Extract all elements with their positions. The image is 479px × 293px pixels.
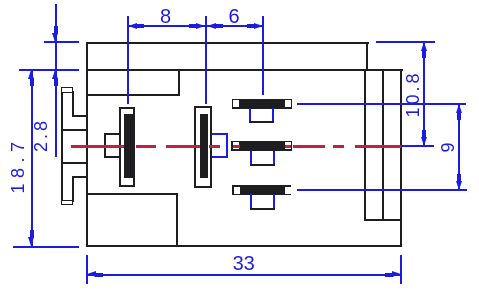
foot box right vertical [176,193,178,248]
dim 18.7 line [31,70,33,246]
body left edge [86,42,88,248]
right extension line at contact 1 center [297,103,467,105]
contact bar 2 (middle) [231,141,293,152]
dim 2.8 line below [55,70,57,157]
centerline dash 9 [355,145,401,148]
contact bar 3 right notch [285,187,291,194]
bracket middle divider lower [61,162,87,164]
contact 3 holder left side (blue) [250,194,252,209]
contact 3 holder bottom [250,208,275,210]
bracket top inner vertical [72,91,74,117]
dim 33 arrow left [86,274,88,276]
centerline dash 5 [233,145,241,148]
right extension line at body top [376,41,435,43]
bracket bottom lip [61,200,73,206]
top dim arrow left of 6 span [206,25,208,27]
dim 10.8 line [423,42,425,146]
body bottom edge [86,245,402,247]
contact 1 holder left side (blue) [249,108,251,123]
centerline dash 7 [293,145,324,148]
body top-right step vertical [366,42,368,71]
dimension text 2.8 [32,118,50,152]
centerline dash 4 [209,145,220,148]
bracket bottom tab horizontal [72,176,88,178]
body upper-left step horizontal [86,94,180,96]
contact bar 1 right notch [285,100,291,107]
contact bar 2 right notch [285,142,291,149]
pin 2 right protrusion top (blue) [212,133,227,135]
pin 1 fill [124,114,133,178]
extension line contact column [262,16,264,95]
centerline dash 1 [71,145,125,148]
foot box top horizontal [86,193,178,195]
dimension text 33 [233,254,255,274]
contact 2 holder right side (blue) [273,151,275,166]
dim 10.8 arrow up (tip at body top) [423,41,425,43]
right panel inner vertical 2 [382,69,384,221]
pin 1 left protrusion bottom [104,156,119,158]
dim 2.8 line through span [55,42,57,70]
centerline blue continuation [401,145,434,147]
pin 2 right protrusion bottom (blue) [212,156,227,158]
bottom extension line right [400,255,402,284]
extension line pin 2 [205,16,207,105]
dimension text 9 [439,139,457,152]
body upper-left step vertical [178,69,180,96]
contact 2 holder left side (blue) [250,151,252,166]
centerline dash 6 [285,145,291,148]
left extension line at body top [44,41,80,43]
left extension line at ledge [19,69,79,71]
centerline dash 2 [136,145,157,148]
contact bar 3 left notch [234,187,240,194]
contact 1 holder right side (blue) [272,108,274,123]
pin 2 outer outline [194,106,212,188]
dim 18.7 arrow up (tip at ledge) [31,69,33,71]
bracket top lip [61,87,73,93]
centerline dash 3 [166,145,200,148]
top dim arrow right of 8 span [204,25,206,27]
dimension text 10.8 [404,70,422,117]
dim 18.7 arrow down (tip at bottom) [31,245,33,247]
dim 2.8 arrow up (tip at ledge) [55,69,57,71]
dim 33 line [87,274,401,276]
dim 10.8 arrow down (tip at centerline) [423,145,425,147]
dimension text 6 [228,7,239,27]
centerline dash 8 [333,145,344,148]
contact bar 3 (bottom) [232,185,292,195]
dim 2.8 line above [55,4,57,42]
pin 1 outer outline [119,107,135,187]
right extension line at contact 3 center [297,189,467,191]
dim 9 line [458,104,460,190]
bracket bottom inner vertical [72,176,74,202]
bracket top tab horizontal [72,115,88,117]
top dimension line (8 and 6) [128,25,263,27]
top dim arrow right of 6 span [262,25,264,27]
contact bar 2 left notch [233,142,239,149]
pin 2 fill [200,114,209,178]
right panel bottom horizontal [364,219,402,221]
contact 2 holder bottom [250,164,275,166]
contact bar 1 left notch [233,100,239,107]
dimension text 18.7 [9,137,27,194]
dim 2.8 arrow down (tip at body top) [55,41,57,43]
body internal horizontal ledge [86,69,403,71]
dim 33 arrow right [400,274,402,276]
right panel inner vertical 1 [364,69,366,221]
pin 1 left protrusion top [104,133,119,135]
dim 9 arrow down (tip at contact 3) [458,189,460,191]
extension line pin 1 [127,16,129,104]
bottom extension line left [86,255,88,284]
dimension text 8 [160,7,171,27]
pin 2 right protrusion right (blue) [226,133,228,158]
dim 9 arrow up (tip at contact 1) [458,103,460,105]
bracket middle divider upper [61,129,87,131]
top dim arrow left (tip at pin1 ext) [127,25,129,27]
contact bar 1 (top) [232,99,292,109]
contact 3 holder right side (blue) [273,194,275,209]
body top edge [86,42,369,44]
left extension line at body bottom [13,246,79,248]
contact 1 holder bottom [249,121,274,123]
pin 1 left protrusion left [104,133,106,157]
bracket left edge [61,87,63,205]
right panel outer vertical / body right edge [400,69,402,247]
